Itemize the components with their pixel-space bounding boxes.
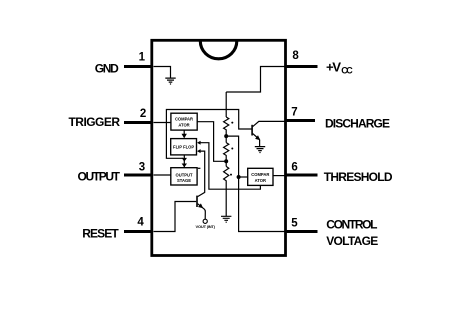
- svg-text:CONTROL: CONTROL: [326, 218, 377, 232]
- svg-text:STAGE: STAGE: [177, 178, 191, 183]
- svg-text:THRESHOLD: THRESHOLD: [324, 170, 393, 184]
- svg-text:GND: GND: [95, 61, 119, 75]
- svg-text:CC: CC: [341, 65, 353, 75]
- svg-text:TRIGGER: TRIGGER: [69, 115, 121, 129]
- svg-text:7: 7: [291, 107, 297, 119]
- svg-text:5: 5: [291, 218, 298, 230]
- svg-text:COMPAR: COMPAR: [175, 116, 193, 121]
- svg-text:ATOR: ATOR: [178, 122, 189, 127]
- svg-text:OUTPUT: OUTPUT: [78, 170, 121, 184]
- svg-text:COMPAR: COMPAR: [251, 172, 269, 177]
- svg-text:1: 1: [139, 52, 146, 64]
- svg-text:6: 6: [291, 162, 297, 174]
- svg-text:V OUT (INT): V OUT (INT): [195, 224, 215, 229]
- svg-text:VOLTAGE: VOLTAGE: [326, 234, 378, 248]
- svg-text:4: 4: [137, 217, 144, 229]
- svg-text:+V: +V: [326, 60, 341, 75]
- svg-text:ATOR: ATOR: [255, 178, 266, 183]
- svg-text:OUTPUT: OUTPUT: [175, 173, 192, 178]
- svg-text:FLIP FLOP: FLIP FLOP: [173, 144, 194, 149]
- svg-text:2: 2: [140, 108, 146, 120]
- svg-text:DISCHARGE: DISCHARGE: [325, 116, 390, 130]
- svg-text:8: 8: [292, 50, 299, 62]
- svg-text:RESET: RESET: [82, 226, 119, 240]
- svg-text:3: 3: [139, 162, 145, 174]
